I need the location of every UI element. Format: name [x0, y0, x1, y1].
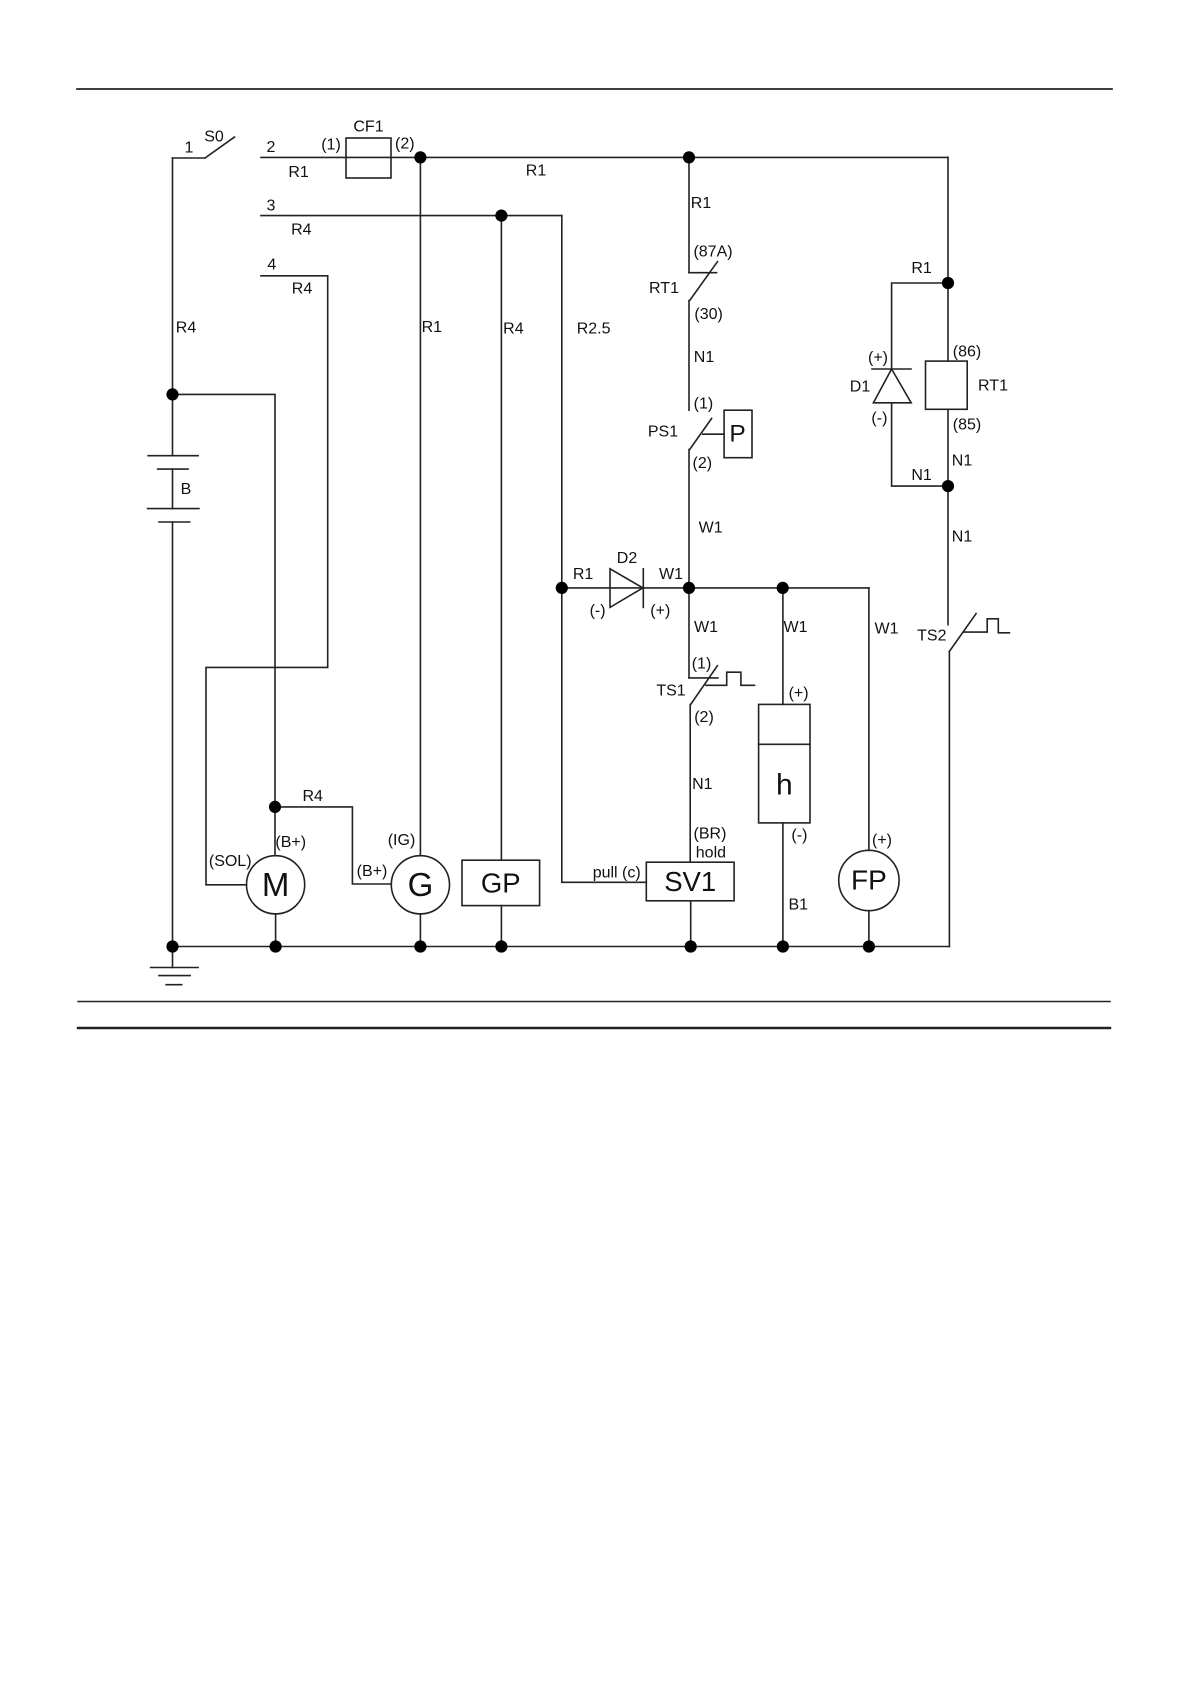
svg-text:W1: W1 — [659, 566, 683, 583]
svg-text:SV1: SV1 — [664, 866, 716, 897]
svg-text:R4: R4 — [292, 281, 313, 298]
svg-text:R1: R1 — [573, 566, 594, 583]
svg-text:2: 2 — [267, 139, 276, 156]
svg-text:R4: R4 — [176, 320, 197, 337]
svg-text:N1: N1 — [692, 776, 713, 793]
svg-text:R4: R4 — [503, 321, 524, 338]
svg-text:N1: N1 — [911, 467, 932, 484]
svg-text:(B+): (B+) — [275, 834, 306, 851]
svg-text:R4: R4 — [302, 788, 323, 805]
svg-text:(+): (+) — [872, 832, 892, 849]
svg-text:(+): (+) — [868, 350, 888, 367]
svg-text:G: G — [408, 866, 434, 903]
svg-text:N1: N1 — [952, 528, 973, 545]
svg-text:D2: D2 — [617, 550, 638, 567]
svg-text:P: P — [729, 421, 745, 448]
svg-text:(1): (1) — [321, 137, 341, 154]
svg-text:W1: W1 — [875, 621, 899, 638]
svg-text:(2): (2) — [693, 455, 713, 472]
svg-text:TS1: TS1 — [656, 683, 685, 700]
svg-text:(2): (2) — [395, 136, 415, 153]
svg-text:R1: R1 — [288, 164, 309, 181]
svg-text:(1): (1) — [692, 655, 712, 672]
svg-text:TS2: TS2 — [917, 628, 946, 645]
svg-text:(2): (2) — [694, 709, 714, 726]
svg-text:(SOL): (SOL) — [209, 853, 252, 870]
svg-text:N1: N1 — [694, 349, 715, 366]
svg-text:M: M — [262, 866, 290, 903]
svg-text:3: 3 — [267, 198, 276, 215]
svg-text:R1: R1 — [691, 195, 712, 212]
svg-text:R1: R1 — [526, 163, 547, 180]
svg-text:(86): (86) — [953, 344, 981, 361]
svg-text:(B+): (B+) — [357, 863, 388, 880]
svg-text:R4: R4 — [291, 222, 312, 239]
svg-text:RT1: RT1 — [978, 377, 1008, 394]
svg-text:(-): (-) — [791, 827, 807, 844]
svg-text:(+): (+) — [789, 685, 809, 702]
svg-text:(30): (30) — [694, 306, 722, 323]
svg-text:4: 4 — [267, 257, 276, 274]
svg-text:R2.5: R2.5 — [577, 321, 611, 338]
svg-text:B: B — [181, 481, 192, 498]
svg-text:(87A): (87A) — [693, 244, 732, 261]
svg-text:PS1: PS1 — [648, 424, 678, 441]
svg-text:S0: S0 — [204, 129, 224, 146]
svg-text:CF1: CF1 — [353, 119, 383, 136]
svg-text:RT1: RT1 — [649, 280, 679, 297]
svg-text:1: 1 — [185, 140, 194, 157]
svg-text:D1: D1 — [850, 379, 871, 396]
svg-text:W1: W1 — [694, 619, 718, 636]
svg-text:(+): (+) — [650, 603, 670, 620]
svg-text:W1: W1 — [699, 520, 723, 537]
svg-text:(-): (-) — [871, 410, 887, 427]
svg-text:W1: W1 — [784, 619, 808, 636]
svg-text:B1: B1 — [789, 896, 809, 913]
svg-text:N1: N1 — [952, 453, 973, 470]
svg-text:(-): (-) — [590, 603, 606, 620]
svg-text:hold: hold — [696, 845, 726, 862]
svg-text:pull (c): pull (c) — [593, 865, 641, 882]
svg-text:FP: FP — [851, 865, 887, 896]
svg-text:(1): (1) — [694, 395, 714, 412]
svg-text:R1: R1 — [911, 260, 932, 277]
svg-text:(85): (85) — [953, 416, 981, 433]
svg-text:(BR): (BR) — [694, 826, 727, 843]
svg-text:h: h — [776, 768, 793, 801]
svg-text:(IG): (IG) — [388, 832, 416, 849]
svg-text:GP: GP — [481, 867, 521, 898]
svg-text:R1: R1 — [422, 319, 443, 336]
